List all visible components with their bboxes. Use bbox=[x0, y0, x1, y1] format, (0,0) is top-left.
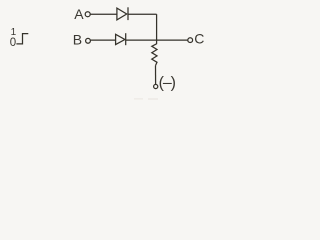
svg-text:B: B bbox=[73, 32, 82, 48]
node B terminal circle bbox=[86, 38, 91, 43]
svg-text:0: 0 bbox=[10, 37, 16, 49]
wire A input bbox=[90, 13, 117, 15]
wire A diode to corner bbox=[128, 13, 157, 15]
wire resistor to negative supply bbox=[155, 66, 157, 85]
wire B input bbox=[91, 39, 116, 41]
node (-) terminal circle bbox=[154, 84, 158, 88]
faint cropped print at bottom edge bbox=[134, 98, 158, 100]
node A terminal circle bbox=[85, 12, 90, 17]
diode D1 (input A) bbox=[117, 8, 127, 20]
wire vertical from A branch through junction to resistor bbox=[156, 14, 158, 44]
svg-text:A: A bbox=[74, 6, 84, 22]
svg-text:(–): (–) bbox=[159, 74, 176, 91]
node C terminal circle bbox=[188, 38, 193, 43]
resistor R1 bbox=[152, 44, 157, 66]
wire B diode to output C bbox=[126, 39, 188, 41]
paper background bbox=[0, 0, 210, 101]
svg-text:C: C bbox=[194, 31, 204, 47]
diode D2 (input B) bbox=[116, 34, 125, 44]
step waveform 0-to-1 symbol bbox=[16, 34, 28, 44]
